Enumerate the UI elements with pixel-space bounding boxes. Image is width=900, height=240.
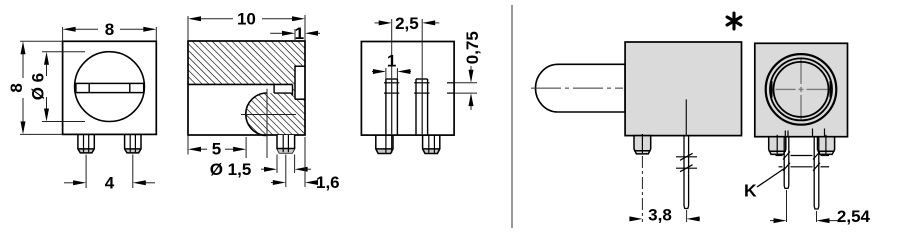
- svg-text:2,5: 2,5: [395, 14, 419, 33]
- hatched strip right of hole: [293, 84, 296, 99]
- channel lines under circle: [785, 129, 824, 137]
- peg V4: [634, 134, 651, 154]
- foot right V3: [423, 135, 440, 153]
- boss centerline vertical: [266, 89, 268, 158]
- step lines right edge: [447, 82, 454, 84]
- hole circle O6: [75, 52, 145, 122]
- svg-text:8: 8: [105, 20, 114, 39]
- body square V1: [63, 41, 157, 134]
- dimension 8 top: [63, 27, 157, 41]
- dimension 2,54: [770, 190, 839, 222]
- dimension 1,6: [271, 137, 305, 187]
- crosshair centermark: [776, 58, 831, 121]
- slot band: [76, 83, 144, 92]
- lead visible in channel: [685, 99, 687, 135]
- band divider right: [129, 83, 131, 92]
- lead below body V4: [684, 136, 689, 209]
- svg-text:4: 4: [105, 173, 115, 192]
- hatched boss + foot block: [246, 93, 305, 136]
- svg-text:Ø 1,5: Ø 1,5: [210, 160, 252, 179]
- svg-text:0,75: 0,75: [463, 31, 482, 64]
- K leader line: [757, 168, 785, 187]
- flange flat right: [829, 81, 831, 98]
- svg-text:1,6: 1,6: [316, 173, 340, 192]
- lead right V5: [814, 137, 819, 209]
- dimension O6: [42, 52, 85, 122]
- boss top edge: [274, 93, 292, 96]
- svg-text:2,54: 2,54: [837, 207, 871, 226]
- front recess notch: [295, 66, 305, 99]
- dimension 10: [188, 15, 305, 41]
- peg V2: [277, 135, 295, 153]
- dimension 0,75: [454, 66, 477, 110]
- middle ring: [770, 58, 832, 120]
- asterisk: [727, 13, 741, 29]
- dimension O 1,5: [261, 155, 311, 174]
- inner circle LED: [774, 62, 829, 117]
- hole step connector: [273, 84, 275, 93]
- svg-text:1: 1: [387, 52, 396, 71]
- slot right: [414, 79, 429, 135]
- LED dome: [536, 64, 626, 112]
- peg left V1: [78, 149, 94, 153]
- svg-text:3,8: 3,8: [648, 205, 672, 224]
- body V4: [625, 42, 741, 136]
- peg left V5: [769, 135, 786, 155]
- foot left V3: [376, 135, 393, 153]
- slot left: [384, 79, 399, 135]
- dimension 8 left: [20, 41, 63, 134]
- peg right V5: [818, 135, 835, 155]
- boss centerline horizontal: [241, 114, 296, 116]
- svg-text:1: 1: [295, 24, 304, 43]
- peg right V1: [125, 149, 141, 153]
- LED axis centerline: [531, 87, 623, 89]
- svg-text:K: K: [744, 181, 757, 201]
- dimension 3,8: [630, 156, 701, 222]
- flange flat left: [771, 81, 773, 98]
- outline view 2: [188, 41, 305, 135]
- svg-text:Ø 6: Ø 6: [29, 73, 48, 100]
- dimension 1 (view3): [372, 68, 411, 79]
- hatched top block: [188, 41, 305, 84]
- dimension 1 top right: [270, 29, 320, 40]
- dimension 5: [188, 136, 246, 159]
- svg-text:5: 5: [212, 140, 221, 159]
- hole bottom edge of top block: [188, 83, 293, 85]
- dimension 4 bottom: [64, 155, 155, 189]
- lead left V5: [784, 137, 789, 189]
- slot centerlines: [391, 79, 393, 135]
- hole right edge strip: [292, 84, 294, 95]
- svg-text:10: 10: [237, 10, 256, 29]
- svg-text:8: 8: [7, 83, 26, 92]
- boss arc: [246, 93, 267, 136]
- break lines V5: [776, 152, 830, 171]
- break marks V4: [676, 153, 697, 171]
- body V5: [755, 43, 848, 136]
- body rect V3: [361, 42, 454, 136]
- band divider left: [88, 83, 90, 92]
- outer ring: [766, 54, 837, 125]
- dimension 2,5: [375, 19, 440, 79]
